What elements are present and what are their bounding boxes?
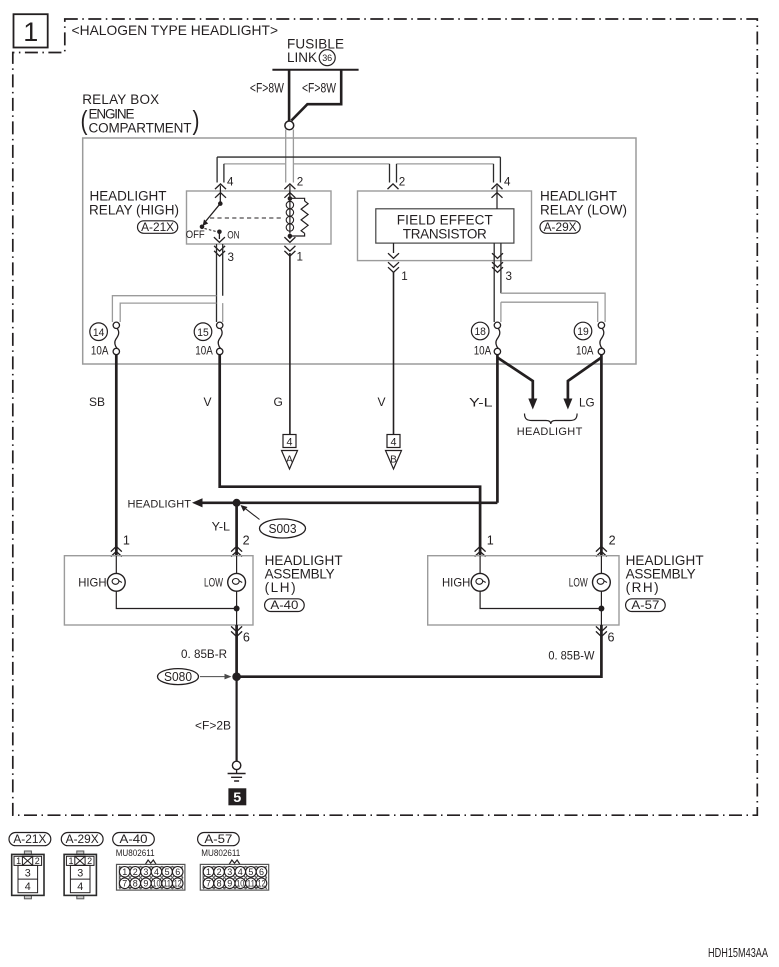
svg-text:A-40: A-40 [120,834,148,846]
svg-text:7: 7 [122,879,127,890]
field effect transistor box U1 [376,209,514,243]
svg-text:A-57: A-57 [204,834,232,846]
relay low pin 2 [388,175,406,190]
splice S080 [158,669,232,685]
svg-text:S003: S003 [269,522,297,536]
svg-text:9: 9 [143,879,148,890]
svg-text:2: 2 [297,175,304,189]
headlight output line to other circuits [128,498,498,510]
bus drop to relay high pin 4 [217,157,224,182]
svg-text:5: 5 [248,867,253,878]
wire Y-L fuse18 down [496,355,499,503]
svg-text:15: 15 [197,327,209,339]
svg-text:RELAY (HIGH): RELAY (HIGH) [89,203,179,218]
ground point 5 marker [228,788,246,805]
svg-text:1: 1 [206,867,211,878]
wire 0.85B-R LH pin6 to ground junction [235,625,238,677]
wire V fuse15 to RH pin1 [220,355,480,556]
svg-text:RELAY (LOW): RELAY (LOW) [540,203,627,218]
svg-text:HEADLIGHT: HEADLIGHT [128,498,192,510]
RH pin 1 [475,533,494,557]
wire 0.85B-W RH pin6 to ground junction [237,625,602,677]
svg-text:A: A [286,455,293,466]
fusible link wire right <F>8W [291,70,341,121]
branch bus to fuse 14 [112,296,216,322]
wire LG fuse19 to RH pin2 [600,355,603,556]
svg-text:A-29X: A-29X [544,222,577,234]
bus drop to FET pin 2 [390,164,397,183]
headlight assembly LH label [265,553,343,595]
svg-text:OFF: OFF [186,229,205,241]
connector list stadium A-57 [198,833,240,847]
svg-text:LOW: LOW [204,576,223,590]
svg-text:10A: 10A [195,343,213,357]
bus bar lower line segments [224,163,494,165]
headlight feed arrow from fuse 18 [497,358,537,410]
svg-text:SB: SB [89,395,105,409]
svg-text:A-57: A-57 [631,600,659,612]
svg-text:A-21X: A-21X [141,222,174,234]
svg-text:Y-L: Y-L [212,520,231,534]
svg-text:HEADLIGHT: HEADLIGHT [517,426,583,438]
svg-text:A-21X: A-21X [13,834,46,846]
svg-text:2: 2 [399,175,406,189]
ground [228,761,246,781]
svg-text:G: G [274,395,283,409]
relay low pin 4 [492,175,511,209]
svg-text:7: 7 [206,879,211,890]
svg-text:3: 3 [228,250,235,264]
relay high pin 2 [284,175,303,198]
inline connector A box 4 [282,435,298,470]
headlight feed arrow from fuse 19 [563,358,601,410]
svg-text:B: B [390,455,397,466]
svg-text:2: 2 [217,867,222,878]
headlight relay (low) label [540,189,627,218]
svg-text:2: 2 [243,533,250,548]
junction node S080 [232,672,241,681]
svg-text:11: 11 [163,879,171,890]
svg-text:<HALOGEN TYPE HEADLIGHT>: <HALOGEN TYPE HEADLIGHT> [72,23,279,38]
connector A-21X pinout [12,851,44,899]
bulb low RH [593,573,611,591]
svg-text:10A: 10A [474,343,492,357]
relay high coil [286,191,293,238]
svg-text:2: 2 [133,867,138,878]
svg-text:5: 5 [165,867,170,878]
svg-text:ON: ON [227,230,239,242]
svg-text:ENGINE: ENGINE [89,107,135,122]
svg-text:6: 6 [175,867,180,878]
svg-text:1: 1 [23,17,38,47]
svg-text:9: 9 [227,879,232,890]
LH pin 2 [231,533,250,557]
circled 36 [319,50,335,66]
svg-text:A-29X: A-29X [66,834,99,846]
svg-text:14: 14 [93,327,105,339]
svg-text:1: 1 [401,269,408,283]
connector code A-40 stadium [265,599,305,612]
fuse 18 [471,322,500,357]
bulb high RH [471,573,489,591]
brace under headlight arrows [525,414,578,425]
connector A-40 pinout MU802611 [116,848,185,890]
headlight relay (high) box [187,191,332,244]
LH internal junction [234,606,240,612]
LH pin 1 [111,533,130,557]
headlight assembly LH box [64,556,253,625]
headlight relay (low) box [358,191,532,261]
sheet number box 1 [14,14,48,47]
headlight assembly RH box [428,556,619,625]
svg-text:HIGH: HIGH [78,576,106,590]
svg-text:TRANSISTOR: TRANSISTOR [403,226,487,241]
lower stub fuse15 [222,303,224,322]
svg-text:LOW: LOW [569,576,588,590]
connector list stadium A-29X [61,833,103,847]
connector A-57 pinout MU802611 [200,848,268,890]
LH internal wiring [116,556,236,625]
svg-text:HEADLIGHT: HEADLIGHT [540,189,617,204]
wire G coil pin1 to connector A [289,253,291,435]
svg-text:1: 1 [123,533,130,548]
svg-text:<F>2B: <F>2B [195,719,231,733]
headlight relay (high) label [89,189,179,218]
svg-text:): ) [193,106,200,136]
LH pin 6 [231,626,250,644]
svg-text:10A: 10A [576,343,594,357]
ground wire <F>2B [236,677,238,762]
junction connector circle below fusible link [285,121,294,130]
fuse 14 [90,322,120,357]
fusible link label [287,37,344,66]
wire SB fuse14 to LH pin1 [115,355,118,556]
svg-text:HDH15M43AA: HDH15M43AA [708,946,768,960]
fusible link wire left <F>8W [288,70,291,121]
bulb high LH [107,573,125,591]
relay low pin 1 [388,243,408,283]
headlight assembly RH label [626,553,704,595]
svg-text:LG: LG [579,396,595,410]
svg-text:12: 12 [174,879,182,890]
svg-text:36: 36 [322,53,332,64]
connector code A-57 stadium [626,599,666,612]
svg-text:11: 11 [247,879,255,890]
svg-text:LINK: LINK [287,50,317,65]
svg-text:8: 8 [133,879,138,890]
wire Y-L junction to LH pin2 [235,503,238,556]
svg-text:HEADLIGHT: HEADLIGHT [90,189,167,204]
connector list stadium A-40 [113,833,155,847]
relay high pin 1 [284,237,303,263]
svg-text:4: 4 [287,436,293,448]
svg-text:1: 1 [297,250,304,264]
svg-text:MU802611: MU802611 [201,848,240,858]
svg-text:4: 4 [238,867,243,878]
wire V FET pin1 to connector B [393,272,395,435]
connector code A-21X stadium [138,221,178,234]
RH internal junction [598,606,604,612]
svg-text:4: 4 [227,175,234,189]
svg-text:10A: 10A [91,343,109,357]
svg-text:V: V [378,395,386,409]
RH internal wiring [480,556,601,625]
relay high switch to coil dashed link [210,217,283,219]
svg-text:4: 4 [504,175,511,189]
svg-text:4: 4 [77,881,83,893]
page dash-dot border frame [13,19,758,815]
connector code A-29X stadium [540,221,580,234]
connector A-29X pinout [64,851,96,899]
svg-text:2: 2 [609,533,616,548]
svg-text:8: 8 [217,879,222,890]
RH pin 2 [596,533,616,557]
relay high pin 4 [215,175,234,198]
relay high pin3 double-line down to fuse 15 [217,244,223,322]
svg-text:6: 6 [243,630,250,645]
bus drop to relay low pin 4 [494,157,501,182]
svg-text:1: 1 [487,533,494,548]
svg-text:4: 4 [154,867,159,878]
svg-text:S080: S080 [164,670,192,684]
fuse 15 [194,322,223,357]
svg-text:<F>8W: <F>8W [302,81,336,96]
svg-text:<F>8W: <F>8W [250,81,284,96]
relay high coil parallel resistor [290,198,308,236]
svg-text:5: 5 [233,790,242,805]
connector list stadium A-21X [9,833,51,847]
inline connector B box 4 [386,435,402,470]
svg-text:A-40: A-40 [270,600,298,612]
relay low pin 3 double-line [492,243,512,322]
relay high switch [186,196,240,242]
fuse 19 [574,322,604,357]
svg-text:3: 3 [143,867,148,878]
RH pin 6 [596,626,615,644]
svg-text:4: 4 [391,436,397,448]
svg-text:3: 3 [506,269,513,283]
svg-text:Y-L: Y-L [469,396,493,410]
svg-text:10: 10 [236,879,244,890]
svg-text:19: 19 [577,326,589,338]
lower stub fuse18 [500,302,502,322]
svg-text:0. 85B-R: 0. 85B-R [181,647,227,661]
bus bar upper line [217,156,500,158]
svg-text:(: ( [81,106,88,136]
svg-text:COMPARTMENT: COMPARTMENT [89,121,192,136]
bulb low LH [228,573,246,591]
relay high pin 3 [214,234,234,264]
svg-text:RELAY BOX: RELAY BOX [82,92,159,107]
splice S003 [241,505,306,538]
svg-text:6: 6 [608,630,615,645]
bus feed pair from fusible link [286,130,294,183]
svg-text:12: 12 [258,879,266,890]
svg-text:V: V [204,395,212,409]
svg-text:10: 10 [153,879,161,890]
svg-text:3: 3 [25,868,31,880]
relay box (engine compartment) outline [83,138,636,364]
junction node S003 [233,499,241,507]
svg-text:18: 18 [474,326,486,338]
svg-text:6: 6 [259,867,264,878]
fusible link bus bar [272,69,358,71]
svg-text:4: 4 [25,881,31,893]
svg-text:3: 3 [77,868,83,880]
svg-text:FIELD EFFECT: FIELD EFFECT [397,212,493,227]
relay box label [81,92,200,136]
svg-text:3: 3 [227,867,232,878]
svg-text:MU802611: MU802611 [116,848,155,858]
branch bus to fuse 19 [501,293,605,322]
svg-text:0. 85B-W: 0. 85B-W [548,649,595,663]
svg-text:HIGH: HIGH [442,576,470,590]
svg-text:1: 1 [122,867,127,878]
